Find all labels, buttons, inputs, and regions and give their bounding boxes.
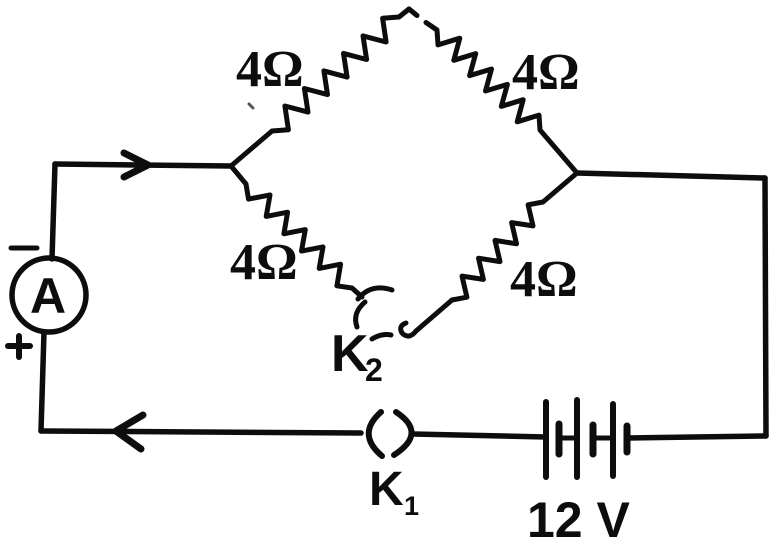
svg-text:12 V: 12 V	[527, 492, 631, 544]
switch K2 fixed contact (curled jaw)	[356, 288, 392, 327]
value label 4Ω (R1)	[236, 41, 304, 98]
resistor R1 (top-left arm, 4 ohm)	[231, 9, 409, 166]
svg-text:1: 1	[404, 491, 419, 521]
value label 4Ω (R2)	[512, 44, 580, 101]
wire: left vertical lower (ammeter to bottom-left corner)	[41, 332, 44, 431]
node: top bridge junction	[408, 8, 411, 11]
svg-text:4Ω: 4Ω	[510, 251, 578, 308]
resistor R3 (bottom-left arm, 4 ohm)	[231, 166, 362, 297]
ammeter A (circle)	[12, 258, 86, 332]
wire: bottom horizontal (bottom-left corner to switch K1)	[41, 431, 361, 433]
wire: top-right horizontal (right bridge junction to right corner)	[577, 173, 765, 178]
value label 4Ω (R4)	[510, 251, 578, 308]
current arrow (top wire, pointing right)	[124, 153, 148, 177]
svg-text:4Ω: 4Ω	[236, 41, 304, 98]
svg-text:A: A	[30, 268, 66, 324]
wire: top-left horizontal (left corner to left bridge junction)	[55, 164, 231, 166]
svg-text:2: 2	[365, 352, 383, 388]
node: right bridge junction	[576, 172, 579, 175]
wire: battery to bottom-right corner	[627, 436, 766, 438]
current arrow (bottom wire, pointing left)	[116, 415, 143, 449]
ammeter letter A	[30, 268, 66, 324]
svg-text:K: K	[369, 463, 404, 516]
wire: left vertical upper (corner down to ammeter)	[52, 164, 55, 259]
stray pen tick	[249, 104, 253, 108]
minus polarity mark	[11, 246, 37, 251]
label K2	[331, 325, 383, 388]
label 12 V	[527, 492, 631, 544]
value label 4Ω (R3)	[230, 234, 298, 291]
svg-text:4Ω: 4Ω	[230, 234, 298, 291]
resistor R4 (bottom-right arm, 4 ohm)	[452, 173, 577, 300]
label K1	[369, 463, 419, 521]
svg-text:K: K	[331, 325, 369, 383]
node: left bridge junction	[230, 165, 233, 168]
svg-text:4Ω: 4Ω	[512, 44, 580, 101]
switch K1 (open contacts drawn as parentheses)	[369, 412, 412, 456]
plus polarity mark	[8, 336, 30, 357]
resistor R2 (top-right arm, 4 ohm)	[409, 9, 577, 173]
switch K2 blade (open, with curled tip)	[372, 300, 452, 339]
battery BT1 (three cells, 12 V)	[546, 400, 627, 477]
wire: right vertical	[765, 178, 766, 436]
wire: switch K1 to battery	[413, 434, 546, 437]
